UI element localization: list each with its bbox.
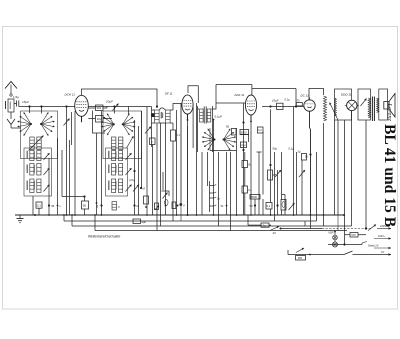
svg-text:DCH 11: DCH 11: [65, 93, 76, 97]
wire v251b: [250, 126, 252, 215]
wire v152b: [152, 145, 154, 216]
svg-text:10µF: 10µF: [272, 99, 279, 103]
wire v66: [66, 107, 68, 216]
screen box gang2: [103, 111, 142, 159]
wire v96: [96, 133, 98, 215]
switch box 4uF: [133, 219, 147, 224]
band coil L9b: [119, 164, 123, 176]
svg-text:DDD 11: DDD 11: [341, 93, 352, 97]
wire v187b: [187, 126, 189, 215]
band coil L4b: [37, 164, 41, 176]
wire v274: [274, 152, 276, 221]
label BF11: [165, 92, 173, 96]
svg-text:250: 250: [298, 256, 303, 260]
IF1 left rail: [151, 107, 153, 148]
wire v69: [69, 140, 71, 215]
wire v141: [141, 111, 143, 188]
band coil L8b: [119, 151, 123, 161]
svg-text:DAF 11: DAF 11: [235, 93, 245, 97]
res af1: [268, 170, 278, 180]
pilot lamp 1: [333, 235, 338, 240]
res af5: [281, 200, 286, 211]
label DCH11: [65, 93, 76, 97]
cap stack2 bottom: [97, 204, 103, 208]
label Skala: [329, 231, 335, 235]
osc coupling coil L2: [37, 137, 41, 150]
wire v310: [310, 129, 312, 216]
band coil L8a: [112, 151, 116, 161]
wire stack1 tap: [62, 196, 85, 198]
wire v165: [165, 123, 167, 215]
trimmer L9: [126, 168, 132, 175]
IF coil L6: [112, 137, 116, 150]
svg-text:4V: 4V: [381, 250, 384, 254]
psu drop 293: [310, 215, 312, 229]
node mid2: [155, 203, 160, 210]
wire v248: [240, 135, 249, 143]
stack1 coil value marks: [27, 151, 35, 190]
band coil L5a: [30, 179, 34, 193]
svg-text:15µF: 15µF: [22, 100, 29, 104]
svg-text:2µ: 2µ: [298, 150, 302, 154]
wire v193: [192, 105, 194, 149]
svg-text:4V: 4V: [273, 231, 277, 235]
svg-text:0,1: 0,1: [37, 203, 42, 207]
label 15uF: [22, 100, 29, 104]
svg-text:Wellenbereichschalter: Wellenbereichschalter: [88, 235, 121, 239]
output transformer frame: [358, 89, 371, 120]
svg-text:50µ: 50µ: [273, 147, 278, 151]
wire v285: [282, 195, 286, 216]
wire gang1 right drop: [41, 107, 43, 114]
wire V3 bottom: [250, 115, 252, 126]
trimmer L3: [44, 153, 50, 160]
label 50 gang3: [226, 125, 236, 136]
det coil: [324, 96, 327, 121]
wire v293: [293, 107, 295, 216]
wire tube2 top bracket: [188, 86, 198, 103]
wire v147: [146, 107, 148, 216]
title BL 41 und 15 B (rotated): [381, 124, 398, 227]
wire tube3 top to DC11 grid: [216, 85, 296, 107]
cap gang3 lower: [241, 142, 247, 148]
node af2: [250, 204, 257, 208]
wire v39: [38, 208, 40, 215]
trimmer arrow under tube1: [64, 119, 70, 126]
output secondary coil: [377, 98, 379, 113]
svg-text:45: 45: [51, 204, 55, 208]
res 250 psu: [288, 248, 311, 260]
tube V5 DDD11: [345, 100, 359, 110]
node B1: [113, 105, 115, 107]
wire main bus y106 left: [19, 106, 75, 108]
node mains: [365, 227, 367, 229]
output transformer core: [372, 97, 374, 122]
speaker: [384, 94, 395, 118]
node IF1: [151, 105, 158, 117]
coil cap stack2: [112, 202, 120, 211]
node L9: [129, 170, 136, 182]
wire v173: [172, 123, 174, 221]
trimmer L10: [126, 185, 132, 192]
wire v244: [244, 152, 246, 215]
main ground bus: [15, 214, 344, 216]
svg-text:2µ: 2µ: [263, 224, 267, 228]
cap det1: [272, 99, 283, 110]
wire gang2 drop b: [128, 107, 130, 115]
wire v57: [57, 138, 59, 215]
label AD1: [341, 93, 352, 97]
wire gang1 left drop: [29, 107, 31, 114]
svg-text:50: 50: [83, 203, 87, 207]
svg-text:Skala 2V: Skala 2V: [368, 244, 379, 248]
wire v334: [334, 120, 336, 215]
svg-text:50: 50: [226, 125, 230, 129]
heater line: [288, 254, 344, 256]
node A1: [28, 105, 30, 107]
wire v338: [0, 0, 1, 1]
label 0,1u af: [289, 147, 295, 151]
capacitor 0,1u stack1: [36, 202, 42, 208]
node 310: [305, 153, 312, 158]
earth arrow: [7, 119, 15, 128]
wire v302: [301, 160, 303, 215]
sub-bus y221: [64, 215, 317, 221]
wire V2 bottom: [187, 114, 189, 126]
label 302: [161, 112, 163, 119]
node stack2 bottom: [133, 204, 139, 208]
node A2: [40, 105, 42, 107]
svg-text:110V~: 110V~: [378, 234, 386, 238]
wire V1 boxes: [88, 107, 112, 119]
svg-text:0,1µ: 0,1µ: [285, 98, 291, 102]
wire det coil right: [0, 0, 1, 1]
T2 top bends: [198, 108, 213, 110]
trimmer arrow at node B1: [113, 104, 119, 111]
mains line dashed: [322, 228, 371, 230]
band coil L10a: [112, 179, 116, 193]
misc junction dots bottom row: [57, 202, 228, 208]
wire v62: [61, 150, 63, 197]
svg-text:5000: 5000: [241, 130, 247, 134]
wire v49: [48, 158, 50, 215]
grid box V1 lower: [96, 116, 104, 123]
wire antenna to band switch: [11, 127, 21, 129]
series capacitor C1: [13, 95, 19, 107]
wire main y106 mid: [88, 106, 151, 108]
cap af3: [266, 203, 272, 210]
svg-text:10µ: 10µ: [97, 117, 102, 121]
band coil L3a: [30, 151, 34, 161]
node A3: [65, 105, 67, 107]
wire v160: [160, 123, 162, 226]
band switch fan S3a: [202, 128, 216, 150]
node gang3 a: [242, 121, 244, 123]
trimmer IF1: [145, 127, 151, 134]
band switch fan S1b: [40, 112, 55, 136]
wire v218: [218, 152, 220, 226]
resistor psu 570: [345, 233, 367, 238]
wire v277: [277, 170, 279, 215]
wire v75: [74, 111, 76, 215]
svg-text:1,5µ: 1,5µ: [13, 95, 19, 99]
wire V4 bottom: [309, 111, 311, 128]
label Wellenschalter: [88, 235, 121, 239]
psu wire left: [248, 215, 261, 225]
T2 coil right: [207, 109, 211, 122]
svg-text:5000: 5000: [251, 195, 257, 199]
cap 0,1uF T2: [213, 115, 223, 121]
wire v33: [32, 196, 34, 215]
node af4: [276, 204, 278, 206]
wire v202: [201, 152, 203, 215]
tube V3 BAF11: [245, 95, 256, 121]
wire v270: [270, 109, 272, 215]
wire v226: [226, 152, 228, 215]
antenna: [5, 82, 17, 97]
wire v281: [281, 152, 283, 215]
lamp feed line: [328, 242, 367, 246]
wire y106 det: [262, 106, 304, 108]
node at 296: [295, 105, 297, 107]
T2 core: [204, 107, 206, 124]
svg-text:10µF: 10µF: [106, 100, 113, 104]
cap box IF1 bottom: [150, 138, 156, 145]
label 50u: [269, 147, 277, 167]
driver primary coil: [335, 98, 337, 116]
label 10uF gang2: [106, 100, 113, 104]
res mid1: [144, 196, 149, 208]
IF coil L7: [119, 137, 123, 150]
wire v236: [236, 128, 238, 215]
wire DC11 top to det coil: [309, 89, 324, 101]
svg-text:570: 570: [351, 233, 356, 237]
speaker frame: [379, 89, 388, 120]
band switch fan S2a: [101, 113, 115, 135]
wire tube1 top to IF1: [82, 89, 158, 108]
res 50 right: [242, 161, 252, 168]
screen box gang1: [21, 111, 58, 159]
title Lorenz (rotated): [386, 103, 393, 122]
svg-text:0,2: 0,2: [258, 128, 262, 132]
wire T2 to tube3: [213, 85, 246, 110]
wire v352: [351, 111, 353, 226]
tap coil: [210, 181, 221, 212]
trimmer arrow gang1: [29, 136, 44, 151]
wire gang2 drop: [114, 107, 116, 114]
osc coupling coil L1: [30, 137, 34, 150]
node det1: [269, 105, 271, 107]
wire v230: [230, 152, 232, 231]
band coil L9a: [112, 164, 116, 176]
T2 rails: [198, 106, 213, 152]
wire v101: [101, 111, 103, 215]
wire v324: [323, 128, 325, 226]
wire v259: [257, 152, 262, 215]
stack2 coil value marks: [108, 151, 116, 190]
tube V4 DC11: [304, 97, 315, 111]
band coil L5b: [37, 179, 41, 193]
mains switch blade: [368, 225, 376, 231]
wire v243: [243, 103, 245, 215]
svg-text:Lorenz: Lorenz: [386, 103, 393, 122]
wire v207: [207, 152, 209, 186]
volume pot: [162, 172, 170, 205]
cap vol: [172, 202, 179, 209]
svg-text:220V~: 220V~: [380, 224, 388, 228]
wire v134: [134, 120, 136, 215]
padder 5000: [240, 130, 249, 135]
bus junction dots: [48, 214, 345, 216]
cap V3 cathode: [258, 127, 264, 133]
switch psu1: [269, 225, 322, 235]
det trimmer arrow: [329, 103, 338, 121]
trimmer L8: [126, 153, 132, 160]
band switch fan S2b: [122, 113, 136, 135]
IF1 coil B: [166, 110, 171, 123]
label 0,1u det: [285, 98, 291, 102]
res det2: [296, 100, 303, 106]
pot arrow af6: [289, 203, 295, 210]
IF1 coil A: [155, 110, 160, 123]
res 5000 horiz: [250, 195, 260, 200]
trimmer L5: [44, 185, 50, 192]
wire v176: [176, 110, 178, 215]
psu line y225: [0, 0, 1, 1]
node mid3: [179, 203, 185, 207]
det coil rails: [323, 123, 325, 128]
bus line y213 right: [337, 215, 339, 231]
cap mid4: [0, 0, 1, 1]
output primary coil: [361, 98, 371, 118]
pot arrow right: [299, 170, 305, 177]
wire v263: [262, 132, 264, 216]
label skala 2v: [368, 244, 391, 250]
mains tick 220: [377, 224, 391, 230]
band coil L10b: [119, 179, 123, 193]
wire v84: [84, 197, 86, 202]
wire v196: [196, 103, 198, 215]
svg-text:470: 470: [296, 100, 301, 103]
svg-text:0,1µF: 0,1µF: [215, 115, 223, 119]
wire v304: [0, 0, 1, 1]
wire v366: [365, 120, 367, 229]
resistor 50 stack1: [82, 195, 89, 209]
antenna coupling box: [5, 99, 14, 112]
wire antenna down: [10, 112, 12, 119]
sub-bus y226: [72, 215, 352, 226]
cap right: [242, 186, 252, 193]
wire v296: [296, 152, 298, 215]
band switch fan S1a: [17, 112, 32, 136]
svg-text:NSF: NSF: [329, 231, 335, 235]
band switch fan S3b: [223, 128, 237, 150]
wire v255: [254, 199, 256, 215]
wire v344: [344, 120, 346, 245]
node gang3 b: [242, 149, 244, 151]
lamp wires: [334, 231, 336, 243]
driver transformer frame: [335, 89, 352, 120]
pot arrow af: [275, 170, 281, 177]
wire v84b: [84, 209, 86, 215]
cap 2u psu: [261, 223, 269, 228]
band coil L3b: [37, 151, 41, 161]
tick 110V: [374, 234, 391, 240]
speaker field coil: [0, 0, 1, 1]
grid box V1 upper: [96, 105, 104, 111]
trimmer L4: [44, 168, 50, 175]
gang3 frame: [210, 128, 237, 151]
svg-text:4,5µ: 4,5µ: [129, 178, 135, 182]
trimmer L10b: [133, 185, 146, 192]
wire v138: [138, 126, 140, 215]
ground symbol: [17, 214, 37, 223]
svg-text:302: 302: [97, 106, 102, 110]
label 2u right: [298, 150, 307, 161]
resistor under IF1: [171, 130, 181, 141]
wire v71: [71, 112, 73, 145]
IF1 bottom bends: [152, 122, 174, 124]
IF1 top bends: [152, 104, 182, 111]
trimmer arrow gang2: [127, 136, 134, 148]
coil stack2 frame: [106, 148, 128, 196]
svg-text:µ: µ: [118, 205, 120, 209]
tube V1 DCH11: [75, 95, 89, 122]
svg-text:4µF: 4µF: [141, 220, 146, 224]
label DC11: [301, 94, 310, 98]
node stack1 bottom: [48, 204, 55, 208]
svg-text:0,1: 0,1: [248, 188, 252, 192]
svg-text:50: 50: [250, 204, 254, 208]
wire v181: [180, 104, 182, 222]
sub-bus y230: [95, 215, 347, 231]
heater switch blade: [344, 250, 391, 256]
svg-text:BL 41 und 15 B: BL 41 und 15 B: [381, 124, 398, 227]
wire v338b: [337, 120, 339, 215]
wire v316: [316, 152, 318, 221]
tube V2 BF11: [182, 95, 193, 120]
pilot lamp 2: [333, 242, 338, 247]
wire v157b: [156, 123, 158, 231]
wire v92: [93, 111, 106, 134]
label BAF11: [235, 93, 245, 97]
band coil L4a: [30, 164, 34, 176]
svg-text:DF 11: DF 11: [165, 92, 173, 96]
T2 coil left: [200, 109, 204, 122]
wire v213: [213, 120, 215, 216]
svg-text:DC 11: DC 11: [301, 94, 310, 98]
svg-text:0,1: 0,1: [267, 204, 271, 208]
coil stack1 frame: [24, 148, 52, 196]
